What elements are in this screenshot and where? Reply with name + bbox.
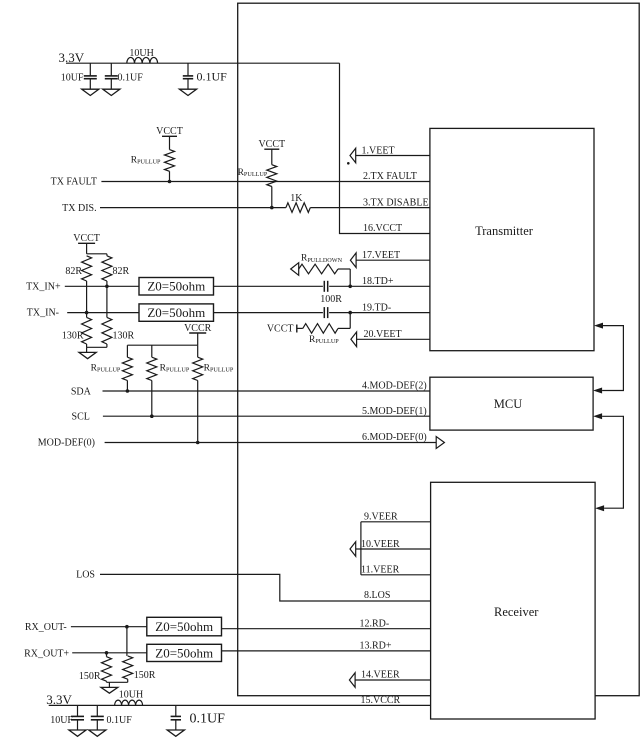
svg-text:Receiver: Receiver <box>494 605 539 619</box>
pin 5.MOD-DEF(1) <box>362 406 427 417</box>
node RX_OUT- junction <box>125 625 129 629</box>
svg-text:10.VEER: 10.VEER <box>361 539 400 550</box>
svg-text:Z0=50ohm: Z0=50ohm <box>147 279 205 294</box>
capacitor coupling TD+ <box>324 281 327 292</box>
pin 18.TD+ <box>362 276 394 287</box>
impedance box Z1 Z0=50ohm <box>139 278 214 296</box>
impedance box Z4 Z0=50ohm <box>147 644 222 661</box>
svg-text:SDA: SDA <box>71 387 92 398</box>
svg-text:9.VEER: 9.VEER <box>364 512 398 523</box>
pin 19.TD- <box>362 302 391 313</box>
ground C2 <box>103 89 120 95</box>
capacitor coupling TD- <box>324 307 327 318</box>
net 3.3V top <box>59 50 85 65</box>
impedance box Z3 Z0=50ohm <box>147 617 222 636</box>
net LOS <box>76 570 431 601</box>
svg-text:VCCT: VCCT <box>156 126 183 137</box>
svg-text:10UF: 10UF <box>50 715 73 726</box>
power VCCT tap3 <box>73 233 100 244</box>
wire VCCT split rail <box>87 243 107 254</box>
capacitor C3 0.1UF top <box>183 63 227 89</box>
capacitor C2 0.1UF top <box>105 63 143 89</box>
pin 20.VEET <box>351 329 430 347</box>
svg-text:SCL: SCL <box>72 412 90 423</box>
wire TD- left <box>214 312 323 314</box>
svg-text:8.LOS: 8.LOS <box>364 590 390 601</box>
capacitor C5 0.1UF bottom <box>91 705 132 730</box>
pin 15.VCCR <box>361 695 401 706</box>
ground C5 <box>89 730 106 736</box>
receiver U3 <box>431 482 595 719</box>
svg-text:1.VEET: 1.VEET <box>362 145 395 156</box>
net SCL <box>72 412 430 423</box>
svg-text:10UH: 10UH <box>129 48 153 59</box>
inductor L1 10UH top <box>127 48 158 63</box>
svg-text:82R: 82R <box>113 266 130 277</box>
ground 150R <box>101 682 118 693</box>
capacitor C6 0.1UF bottom <box>171 705 226 730</box>
wire VCCR rail <box>127 333 197 345</box>
pin 16.VCCT <box>363 223 402 234</box>
wire VCCT drop to pin16 <box>340 63 430 233</box>
ground C1 <box>82 89 99 95</box>
pin 17.VEET <box>350 250 430 268</box>
svg-text:6.MOD-DEF(0): 6.MOD-DEF(0) <box>362 432 427 443</box>
svg-text:10UF: 10UF <box>61 73 84 84</box>
svg-text:18.TD+: 18.TD+ <box>362 276 394 287</box>
svg-text:VCCT: VCCT <box>73 233 100 244</box>
node TD+ junction <box>348 285 352 289</box>
svg-text:0.1UF: 0.1UF <box>190 712 226 727</box>
svg-text:VCCT: VCCT <box>258 139 285 150</box>
resistor Rpullup2 <box>238 149 277 207</box>
resistor Rpulldown <box>291 254 351 287</box>
wire VEER bus <box>360 522 362 575</box>
wire TX DISABLE to transmitter <box>310 207 430 209</box>
svg-text:LOS: LOS <box>76 570 95 581</box>
wire TD+ right <box>329 285 430 287</box>
pin 6.MOD-DEF(0) <box>362 432 427 443</box>
svg-text:82R: 82R <box>65 266 82 277</box>
label 100R <box>320 294 342 305</box>
transmitter U1 <box>430 128 594 350</box>
resistor Rpullup SDA <box>91 345 133 391</box>
net TX_IN+ <box>26 282 139 293</box>
svg-text:4.MOD-DEF(2): 4.MOD-DEF(2) <box>362 380 427 391</box>
power VCCR <box>184 323 212 334</box>
power VCCT tap4 <box>267 324 303 335</box>
pin 2.TX FAULT <box>363 171 417 182</box>
svg-text:0.1UF: 0.1UF <box>107 715 133 726</box>
svg-text:0.1UF: 0.1UF <box>197 69 228 83</box>
svg-text:16.VCCT: 16.VCCT <box>363 223 402 234</box>
svg-text:MOD-DEF(0): MOD-DEF(0) <box>38 438 95 449</box>
svg-text:3.TX DISABLE: 3.TX DISABLE <box>363 197 429 208</box>
module boundary box <box>238 3 640 696</box>
resistor 130R left <box>62 313 92 348</box>
svg-text:Z0=50ohm: Z0=50ohm <box>155 619 213 634</box>
node SDA junction <box>126 389 130 393</box>
resistor 150R right <box>123 656 156 682</box>
svg-text:VCCR: VCCR <box>184 323 212 334</box>
svg-text:TX DIS.: TX DIS. <box>62 203 96 214</box>
wire 130R join <box>87 346 107 348</box>
svg-text:RX_OUT+: RX_OUT+ <box>24 649 69 660</box>
resistor Rpullup MOD-DEF0 <box>193 345 234 442</box>
pin 1.VEET <box>347 145 430 164</box>
ground C4 <box>69 730 86 736</box>
svg-text:VCCT: VCCT <box>267 324 294 335</box>
resistor Rpullup TD- <box>303 313 350 346</box>
impedance box Z2 Z0=50ohm <box>139 304 214 321</box>
pin 14.VEER <box>349 670 430 688</box>
wire 3.3V top rail <box>66 62 340 64</box>
svg-text:20.VEET: 20.VEET <box>364 329 402 340</box>
pin 8.LOS <box>364 590 390 601</box>
svg-text:0.1UF: 0.1UF <box>118 73 144 84</box>
net TX DIS. <box>62 203 286 214</box>
svg-text:TX_IN-: TX_IN- <box>27 308 59 319</box>
node TX DISABLE junction <box>270 206 274 210</box>
svg-text:19.TD-: 19.TD- <box>362 302 391 313</box>
net RX_OUT- <box>25 622 147 633</box>
pin 9.VEER <box>361 512 431 523</box>
svg-text:TX FAULT: TX FAULT <box>51 177 97 188</box>
pin 3.TX DISABLE <box>363 197 429 208</box>
capacitor C4 10UF bottom <box>50 705 84 730</box>
svg-text:1K: 1K <box>290 193 303 204</box>
svg-text:Z0=50ohm: Z0=50ohm <box>155 646 213 661</box>
pin 11.VEER <box>361 565 431 576</box>
svg-text:15.VCCR: 15.VCCR <box>361 695 401 706</box>
resistor 150R left <box>79 653 112 683</box>
ground 130R <box>79 347 96 358</box>
svg-text:130R: 130R <box>113 330 135 341</box>
net SDA <box>71 387 430 398</box>
node MOD-DEF(0) junction <box>196 441 200 445</box>
resistor 1K <box>286 193 310 212</box>
wire TD+ left <box>214 285 323 287</box>
wire 15.VCCR bottom rail <box>49 704 431 706</box>
pin 12.RD- <box>222 618 431 629</box>
pin 4.MOD-DEF(2) <box>362 380 427 391</box>
svg-text:RX_OUT-: RX_OUT- <box>25 622 67 633</box>
svg-text:5.MOD-DEF(1): 5.MOD-DEF(1) <box>362 406 427 417</box>
net MOD-DEF(0) <box>38 438 436 449</box>
ground C6 <box>167 730 184 736</box>
arrow MOD-DEF(0) <box>436 437 444 449</box>
net TX FAULT <box>51 177 430 188</box>
svg-text:Transmitter: Transmitter <box>475 224 534 238</box>
pin 13.RD+ <box>222 641 431 652</box>
svg-text:MCU: MCU <box>494 397 522 411</box>
net 3.3V bottom <box>46 692 72 707</box>
power VCCT tap2 <box>258 139 285 150</box>
wire link MCU-receiver <box>593 413 623 511</box>
svg-text:12.RD-: 12.RD- <box>360 618 390 629</box>
svg-text:150R: 150R <box>79 671 101 682</box>
mcu U2 <box>430 377 593 430</box>
svg-text:10UH: 10UH <box>119 690 143 701</box>
svg-text:17.VEET: 17.VEET <box>362 250 400 261</box>
ground C3 <box>179 89 196 95</box>
capacitor C1 10UF top <box>61 63 97 89</box>
wire link transmitter-MCU <box>593 323 623 394</box>
svg-text:130R: 130R <box>62 330 84 341</box>
node RX_OUT+ junction <box>105 651 109 655</box>
pin 10.VEER <box>350 539 431 557</box>
wire 150R join <box>107 681 128 683</box>
net TX_IN- <box>27 308 139 319</box>
node TX_IN- junction <box>85 311 89 315</box>
node TX FAULT junction <box>168 180 172 184</box>
svg-text:11.VEER: 11.VEER <box>361 565 400 576</box>
svg-text:TX_IN+: TX_IN+ <box>26 282 61 293</box>
svg-text:13.RD+: 13.RD+ <box>360 641 392 652</box>
svg-text:150R: 150R <box>134 670 156 681</box>
resistor 130R right <box>102 286 135 347</box>
svg-text:14.VEER: 14.VEER <box>361 670 400 681</box>
node TX_IN+ junction <box>105 285 109 289</box>
power VCCT tap1 <box>156 126 183 137</box>
resistor 82R left <box>65 256 91 313</box>
wire TD- right <box>329 312 430 314</box>
resistor Rpullup SCL <box>147 345 190 416</box>
svg-text:Z0=50ohm: Z0=50ohm <box>147 305 205 320</box>
net RX_OUT+ <box>24 649 147 660</box>
wire RX_OUT- drop <box>126 627 128 656</box>
inductor L2 10UH bottom <box>115 690 144 706</box>
node TD- junction <box>348 311 352 315</box>
svg-text:2.TX FAULT: 2.TX FAULT <box>363 171 417 182</box>
svg-text:100R: 100R <box>320 294 342 305</box>
resistor Rpullup1 <box>131 136 175 181</box>
resistor 82R right <box>102 254 130 286</box>
node SCL junction <box>150 414 154 418</box>
